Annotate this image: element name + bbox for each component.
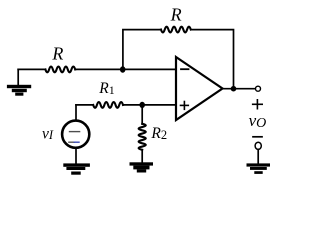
wire source bottom to ground [75, 148, 77, 164]
ground (under R2) [130, 162, 154, 172]
ground (right output) [247, 163, 271, 174]
wire feedback loop right vertical [191, 30, 234, 89]
svg-text:vO: vO [249, 111, 267, 131]
wire non-inverting row to op-amp [123, 104, 176, 106]
wire source top to R1 row [75, 105, 77, 121]
node (output junction) [231, 86, 237, 92]
node (inverting input junction) [120, 66, 126, 72]
label minus (vO polarity) [253, 136, 262, 138]
wire R2 to ground [141, 150, 143, 163]
wire feedback loop left vertical [123, 30, 161, 70]
source vI circle [62, 121, 89, 148]
wire non-inverting row from source corner [76, 104, 93, 106]
wire op-amp output [223, 88, 256, 90]
wire inverting-row right segment to op-amp [75, 68, 176, 70]
node (non-inverting junction to R2) [139, 102, 145, 108]
resistor R1 [93, 102, 123, 108]
op-amp U1 triangle [176, 57, 223, 120]
wire inverting-row left segment [18, 68, 45, 70]
lower terminal (open circle) [255, 142, 261, 149]
wire lower terminal to ground [257, 149, 259, 163]
svg-text:R2: R2 [150, 125, 167, 142]
svg-text:R1: R1 [98, 80, 114, 97]
svg-text:vI: vI [42, 125, 54, 142]
output terminal (open circle) [256, 86, 261, 91]
ground (under source vI) [63, 163, 90, 174]
resistor R2 (vertical) [139, 124, 146, 150]
source minus mark [69, 141, 74, 143]
svg-text:R: R [51, 44, 63, 64]
op-amp non-inverting input plus sign [181, 102, 189, 110]
wire node to R2 [141, 105, 143, 124]
resistor R (feedback) [161, 27, 191, 33]
op-amp inverting input minus sign [181, 68, 189, 70]
label + (vO polarity) [253, 100, 263, 109]
resistor R (left, series to ground) [45, 67, 75, 73]
source plus mark [70, 131, 80, 133]
svg-text:R: R [170, 4, 182, 24]
ground (left, under R) [7, 69, 31, 95]
